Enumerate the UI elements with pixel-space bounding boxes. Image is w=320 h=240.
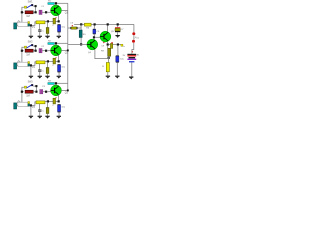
switch SW3 contact: [31, 84, 33, 86]
wire Q4 collector up: [93, 38, 95, 39]
node emitter right: [58, 100, 60, 102]
pot P2 terminal teal: [28, 64, 30, 66]
pot P1 icon marks: [17, 20, 21, 23]
wire below yellow resistor: [39, 104, 41, 110]
node switch/resistor: [35, 50, 37, 52]
capacitor C6 body blue: [93, 28, 96, 31]
node pot out: [30, 64, 32, 66]
wire: [17, 25, 18, 27]
wire R10 to ground: [107, 72, 109, 76]
capacitor C3c plates: [38, 109, 41, 112]
wire collector out to bus: [61, 9, 67, 11]
resistor R1b body cyan: [48, 3, 55, 5]
wire C7 to ground: [117, 32, 119, 35]
wire to C7: [117, 26, 119, 28]
node Q4 collector: [93, 36, 95, 38]
wire: [47, 62, 49, 68]
resistor R1e body olive: [46, 28, 49, 34]
wire Q5 emitter: [107, 42, 109, 43]
svg-text:SW3: SW3: [28, 82, 34, 84]
node Q4 base: [80, 43, 82, 45]
resistor R2d body yellow: [36, 61, 45, 64]
node input column: [21, 50, 23, 52]
resistor R3c body olive: [53, 98, 56, 104]
pot P3 icon marks: [17, 100, 21, 103]
node switch/resistor: [35, 11, 37, 13]
switch SW2 lever: [27, 45, 32, 48]
resistor R1c body olive: [53, 18, 56, 24]
wire to output terminal: [119, 44, 121, 46]
ground: [29, 36, 33, 37]
ground: [45, 76, 49, 77]
node switch row: [35, 45, 37, 47]
node input column: [21, 91, 23, 93]
node base: [45, 91, 47, 93]
wire cap to ground: [39, 112, 41, 116]
wire C5 to node: [78, 24, 82, 28]
channel 3: [14, 80, 69, 118]
wire cap to ground: [58, 32, 60, 35]
wire cap to base node: [43, 91, 45, 93]
wire R lead: [33, 11, 34, 13]
resistor R9 body olive: [108, 48, 111, 56]
switch SW1 pole: [24, 6, 26, 8]
node emitter right: [58, 60, 60, 62]
wire collector top to bus: [57, 82, 68, 84]
resistor R1d body yellow: [36, 21, 45, 24]
node emitter left: [47, 100, 49, 102]
capacitor C3a plates: [40, 90, 41, 94]
switch SW2 contact: [31, 44, 33, 46]
resistor R6 body yellow: [84, 23, 91, 26]
capacitor C1d body blue: [58, 23, 61, 26]
ground: [38, 116, 42, 117]
wire battery to ground: [131, 62, 133, 76]
wire input column: [22, 47, 25, 62]
pot P2 icon marks: [17, 60, 21, 63]
switch SW3 lever: [27, 85, 32, 88]
emitter arrow red: [56, 17, 57, 19]
wire between LED parts: [133, 35, 135, 39]
wire cap to ground: [39, 72, 41, 76]
resistor R1a 1M body: [25, 11, 33, 14]
wire cap to ground: [58, 72, 60, 75]
wire node to Q5 base: [95, 36, 100, 38]
node switch row: [35, 85, 37, 87]
output terminal: [121, 44, 123, 46]
wire collector lead: [55, 44, 57, 47]
ground: [57, 116, 61, 117]
ground: [115, 35, 119, 36]
wire mixing bus: [67, 3, 69, 90]
wire below yellow resistor: [39, 64, 41, 70]
pot P3 terminal teal: [28, 104, 30, 106]
node emitter rail right: [117, 43, 119, 45]
emitter arrow red: [56, 57, 57, 59]
wire collector out to bus: [61, 89, 67, 91]
wire: [17, 105, 18, 107]
mixer / output section: [67, 3, 140, 91]
capacitor C5 body: [70, 27, 71, 29]
input jack J2: [14, 63, 17, 69]
resistor R2b body cyan: [48, 43, 55, 45]
resistor R2e body olive: [46, 68, 49, 74]
transistor Q3 symbol: [51, 89, 54, 91]
channel 2: [14, 40, 69, 78]
resistor R10 body yellow: [106, 63, 109, 72]
resistor R3e body olive: [46, 108, 49, 114]
svg-text:SW2: SW2: [28, 42, 34, 44]
wire to transistor base: [47, 91, 51, 93]
node input column: [21, 11, 23, 13]
transistor Q2 symbol: [51, 49, 54, 51]
wire switch: [33, 46, 35, 51]
pot P2 terminal yellow: [28, 62, 30, 64]
battery polarity +: [132, 51, 133, 52]
transistor Q5 body: [100, 31, 111, 42]
pot P1 terminal yellow: [28, 22, 30, 24]
wire collector lead: [55, 84, 57, 87]
svg-text:1M: 1M: [26, 15, 29, 18]
resistor R5 body teal: [79, 30, 82, 38]
node emitter right: [58, 20, 60, 22]
LED D1 anode dot: [132, 32, 135, 35]
transistor Q4 symbol: [87, 44, 90, 46]
wire cap to ground: [39, 32, 41, 36]
wire pot to R: [32, 62, 36, 66]
wire pot to R: [32, 22, 36, 26]
capacitor C2c plates: [38, 69, 41, 72]
wire R lead: [33, 91, 35, 93]
LED D1 arrow: [135, 36, 136, 38]
wire R lead: [33, 50, 34, 52]
node bus ch2: [67, 49, 69, 51]
emitter arrow red: [56, 97, 57, 99]
wire cap to base node: [42, 50, 45, 52]
wire bus to C5: [68, 27, 71, 29]
resistor R3a 1M body: [25, 90, 33, 93]
wire node to R5: [80, 24, 82, 30]
wire: [47, 22, 49, 28]
wire: [47, 74, 49, 76]
input jack J3: [14, 103, 17, 109]
node collector top: [55, 2, 57, 4]
ground: [29, 116, 33, 117]
switch SW2 pole: [24, 46, 26, 48]
input jack J1: [14, 23, 17, 29]
wire switch: [33, 6, 35, 12]
transistor Q3 body: [51, 85, 62, 96]
potentiometer P2 body: [18, 62, 28, 66]
wire: [47, 34, 49, 36]
wire to transistor base: [47, 50, 51, 52]
wire collector lead: [55, 4, 57, 7]
capacitor C1a plates: [39, 10, 40, 14]
wire pot to ground: [30, 66, 32, 75]
pot P3 terminal yellow: [28, 102, 30, 104]
wire: [47, 114, 49, 116]
wire top rail corner down: [133, 24, 135, 32]
wire main top rail: [74, 23, 134, 25]
capacitor C7 body: [115, 27, 120, 28]
transistor Q2 body: [51, 45, 62, 56]
wire below yellow resistor: [39, 24, 41, 30]
node top rail A: [80, 23, 82, 25]
wire Q5 collector: [107, 24, 109, 31]
ground: [115, 76, 119, 77]
ground: [129, 77, 133, 78]
node collector top: [55, 42, 57, 44]
wire cap to base node: [42, 11, 45, 13]
wire LED to battery: [132, 43, 134, 54]
wire Q4 emitter to node: [95, 50, 109, 63]
ground: [45, 36, 49, 37]
wire pot to R: [32, 102, 36, 106]
capacitor C5 polarity +: [72, 25, 73, 26]
capacitor C9 body blue: [116, 54, 119, 57]
node bus ch3: [67, 89, 69, 91]
capacitor C3d body blue: [58, 103, 61, 106]
wire node down: [107, 46, 109, 49]
switch SW1 lever: [27, 5, 32, 8]
wire C6 leads: [93, 26, 95, 37]
transistor Q4 body: [87, 39, 98, 50]
wire input column: [22, 7, 25, 22]
node base: [45, 11, 47, 13]
wire switch: [33, 86, 36, 92]
resistor R2a 1M body: [25, 49, 33, 52]
capacitor C8 body olive: [110, 43, 112, 48]
wire collector out to bus: [61, 49, 67, 51]
resistor R3b body cyan: [48, 83, 55, 85]
ground: [38, 36, 42, 37]
node emitter left: [47, 60, 49, 62]
wire input column: [22, 87, 25, 102]
ground: [29, 76, 33, 77]
switch SW3 pole: [24, 86, 26, 88]
svg-text:1M: 1M: [26, 94, 29, 97]
node emitter left: [47, 20, 49, 22]
transistor Q1 body: [51, 5, 62, 16]
capacitor C1c plates: [38, 29, 41, 32]
LED D1 cathode dot: [132, 40, 135, 43]
node top rail D: [117, 23, 119, 25]
capacitor C2d body blue: [58, 63, 61, 66]
wire bus to Q4 base: [68, 43, 87, 45]
resistor R3d body yellow: [36, 101, 45, 104]
svg-text:SW1: SW1: [28, 2, 34, 4]
ground: [57, 36, 61, 37]
potentiometer P1 body: [18, 22, 28, 26]
node collector top: [55, 82, 57, 84]
node below R9: [108, 57, 110, 59]
wire node to C9: [117, 46, 119, 56]
transistor Q5 symbol: [100, 36, 103, 38]
wire: [47, 102, 49, 108]
svg-text:1M: 1M: [26, 53, 29, 56]
wire emitter: [58, 55, 60, 62]
node base: [45, 50, 47, 52]
node Q5 emitter: [107, 43, 109, 45]
emitter arrow red Q5: [103, 42, 105, 44]
wire emitter: [58, 95, 60, 102]
wire pot to ground: [30, 106, 32, 115]
pot P1 terminal teal: [28, 24, 30, 26]
ground: [57, 76, 61, 77]
node top rail B: [94, 23, 96, 25]
wire emitter row: [45, 61, 58, 63]
wire to transistor base: [47, 11, 51, 13]
transistor Q1 symbol: [51, 9, 54, 11]
ground: [45, 116, 49, 117]
node switch row: [35, 5, 37, 7]
node pot out: [30, 104, 32, 106]
wire emitter: [58, 15, 60, 22]
wire pot to ground: [30, 26, 32, 35]
ground: [106, 76, 110, 77]
wire C9 to ground: [116, 63, 118, 76]
wire emitter row: [45, 101, 58, 103]
node top rail C: [107, 23, 109, 25]
wire collector top to bus: [57, 42, 68, 44]
channel 1: [14, 0, 69, 38]
wire cap to ground: [58, 112, 60, 115]
capacitor C2a plates: [39, 49, 40, 53]
resistor R2c body olive: [53, 58, 56, 64]
wire collector top to bus: [57, 2, 68, 4]
ground: [38, 76, 42, 77]
battery B1 plates: [127, 54, 136, 55]
switch SW1 contact: [31, 4, 33, 6]
wire emitter row right: [109, 44, 117, 46]
wire: [17, 65, 18, 67]
node pot out: [30, 24, 32, 26]
wire R5 to node: [80, 38, 82, 44]
potentiometer P3 body: [18, 102, 28, 106]
wire emitter row: [45, 21, 58, 23]
node switch/resistor: [35, 91, 37, 93]
